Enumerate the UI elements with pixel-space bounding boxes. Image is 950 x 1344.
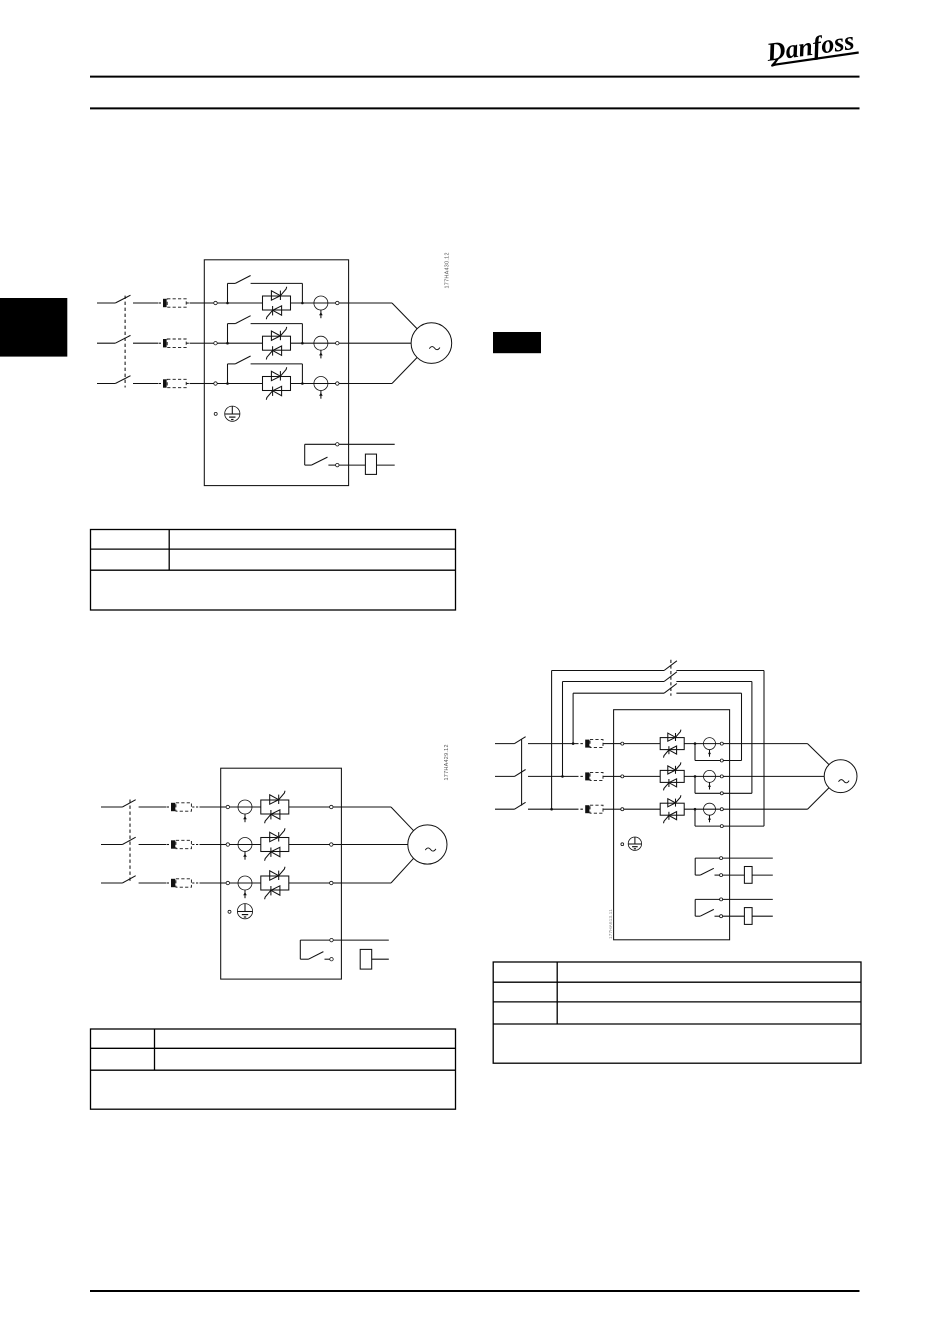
svg-text:Danfoss: Danfoss: [764, 26, 856, 67]
D2 fuse L1: [167, 803, 221, 811]
D2 relay contact: [300, 938, 333, 961]
D3 L2 output terminal: [720, 775, 729, 778]
D2 fuse L3: [167, 879, 221, 887]
black notice box: [493, 332, 541, 353]
D3 L2 bypass contactor loop: [561, 672, 752, 794]
D2 L3 input terminal and wire: [221, 881, 261, 884]
D1 disconnect linkage bar (dashed): [124, 296, 126, 388]
D1 enclosure (soft starter): [204, 260, 348, 486]
D1 antiparallel thyristor pair L2: [263, 327, 291, 360]
D3 L3 bypass contactor loop: [550, 661, 764, 826]
D1 relay coil: [339, 454, 395, 474]
D1 wire L3 thyristor to sensor: [291, 383, 336, 385]
D3 PE terminal: [621, 843, 624, 846]
D1 L2 input terminal and wire: [204, 342, 262, 345]
D3 relay contact 2: [695, 898, 722, 918]
D1 relay contact: [305, 443, 339, 467]
D3 antiparallel thyristor pair L3: [660, 795, 684, 823]
D1 L2 supply wire and disconnect switch pole: [97, 335, 158, 343]
D2 PE terminal: [228, 910, 231, 913]
D2 antiparallel thyristor pair L3: [261, 867, 289, 900]
D3 antiparallel thyristor pair L2: [660, 762, 684, 790]
D3 motor wire L3: [730, 788, 829, 809]
D2 fuse L2: [167, 840, 221, 848]
D2 L2 supply wire and disconnect switch pole: [101, 837, 166, 844]
D2 enclosure (soft starter): [221, 768, 342, 979]
D3 protective earth symbol: [628, 837, 641, 850]
D1 L2 output terminal: [336, 342, 349, 345]
D1 fuse L2: [159, 339, 205, 347]
D3 L2 supply wire and disconnect switch pole: [495, 770, 576, 777]
D1 PE terminal: [214, 412, 217, 415]
D1 L1 supply wire and disconnect switch pole: [97, 295, 158, 303]
D2 L1 input terminal and wire: [221, 805, 261, 808]
D1 L1 output terminal: [336, 301, 349, 304]
D3 antiparallel thyristor pair L1: [660, 730, 684, 758]
svg-text:177HA430.12: 177HA430.12: [445, 252, 451, 288]
D3 L1 bypass return terminal: [695, 744, 742, 762]
D2 L1 supply wire and disconnect switch pole: [101, 800, 166, 807]
D3 enclosure (soft starter): [614, 710, 730, 940]
D3 L3 bypass return terminal: [695, 809, 764, 827]
D3 disconnect linkage bar: [521, 740, 523, 806]
header rule 2: [90, 107, 860, 109]
D1 current sensor L2: [314, 336, 328, 358]
D1 L1 input terminal and wire: [204, 301, 262, 304]
D3 motor wire L1: [730, 744, 829, 765]
D3 L3 supply wire and disconnect switch pole: [495, 802, 576, 809]
D3 current sensor L2: [704, 770, 716, 789]
D2 current sensor L1: [238, 800, 252, 822]
D3 L2 input terminal and wire: [614, 775, 661, 778]
D1 L2 bypass contact: [226, 316, 304, 345]
D2 motor wire L1: [341, 807, 413, 831]
Danfoss logo: [764, 26, 859, 68]
D2 motor M: [408, 825, 447, 864]
D1 fuse L1: [159, 299, 205, 307]
D1 motor wire L1: [349, 303, 418, 329]
D1 protective earth symbol: [225, 406, 240, 421]
D3 L1 output terminal: [720, 742, 729, 745]
D1 L3 output terminal: [336, 382, 349, 385]
D3 L3 input terminal and wire: [614, 808, 661, 811]
D1 fuse L3: [159, 379, 205, 387]
D2 L1 output terminal: [289, 805, 342, 808]
D1 motor M: [411, 323, 452, 364]
D3 current sensor L3: [704, 803, 716, 822]
D1 L1 bypass contact: [226, 276, 304, 305]
D1 current sensor L3: [314, 377, 328, 399]
D1 L3 bypass contact: [226, 356, 304, 385]
D1 wire L2 thyristor to sensor: [291, 342, 336, 344]
D2 L3 supply wire and disconnect switch pole: [101, 876, 166, 883]
svg-text:177HA613.11: 177HA613.11: [608, 909, 613, 939]
D1 motor wire L3: [349, 358, 418, 384]
D1 antiparallel thyristor pair L1: [263, 287, 291, 320]
D2 relay wire upper: [333, 939, 389, 941]
table 1: [91, 530, 456, 611]
D2 relay coil: [360, 949, 389, 969]
D3 wire L3 thyristor to sensor: [684, 808, 720, 811]
header rule 1: [90, 76, 860, 78]
D3 relay coil 2: [723, 908, 773, 925]
D3 fuse L3: [576, 805, 614, 813]
D2 motor wire L2: [341, 844, 407, 846]
D3 wire L2 thyristor to sensor: [684, 775, 720, 778]
table 3: [493, 962, 861, 1063]
D3 fuse L1: [576, 740, 614, 748]
D2 protective earth symbol: [237, 904, 252, 919]
D3 relay 1 wire upper: [723, 857, 773, 859]
D3 motor wire L2: [730, 775, 825, 777]
D2 antiparallel thyristor pair L1: [261, 791, 289, 824]
D3 relay 2 wire upper: [723, 898, 773, 900]
D3 L3 output terminal: [720, 808, 729, 811]
D3 fuse L2: [576, 772, 614, 780]
D1 L3 supply wire and disconnect switch pole: [97, 376, 158, 384]
D1 motor wire L2: [349, 342, 412, 344]
D2 current sensor L3: [238, 876, 252, 898]
D1 wire L1 thyristor to sensor: [291, 302, 336, 304]
D2 antiparallel thyristor pair L2: [261, 828, 289, 861]
D3 wire L1 thyristor to sensor: [684, 742, 720, 745]
D1 current sensor L1: [314, 296, 328, 318]
D2 motor wire L3: [341, 858, 413, 883]
D3 bypass contactor linkage (dashed): [670, 660, 672, 696]
table 2: [91, 1029, 456, 1109]
svg-text:177HA429.12: 177HA429.12: [444, 744, 450, 780]
D2 disconnect linkage bar (dashed): [129, 800, 131, 883]
D3 L2 bypass return terminal: [695, 776, 752, 794]
D3 L1 input terminal and wire: [614, 742, 661, 745]
footer rule: [90, 1290, 860, 1292]
D3 L1 supply wire and disconnect switch pole: [495, 737, 576, 744]
D1 antiparallel thyristor pair L3: [263, 367, 291, 400]
D2 L2 output terminal: [289, 843, 342, 846]
D2 current sensor L2: [238, 838, 252, 860]
D3 relay coil 1: [723, 867, 773, 884]
D3 current sensor L1: [704, 738, 716, 757]
D2 L2 input terminal and wire: [221, 843, 261, 846]
D3 L1 bypass contactor loop: [572, 684, 742, 761]
D1 L3 input terminal and wire: [204, 382, 262, 385]
section tab black marker: [0, 298, 67, 357]
D1 relay wire upper: [339, 443, 395, 445]
D2 L3 output terminal: [289, 881, 342, 884]
D3 relay contact 1: [695, 857, 722, 877]
D3 motor M: [824, 760, 857, 793]
